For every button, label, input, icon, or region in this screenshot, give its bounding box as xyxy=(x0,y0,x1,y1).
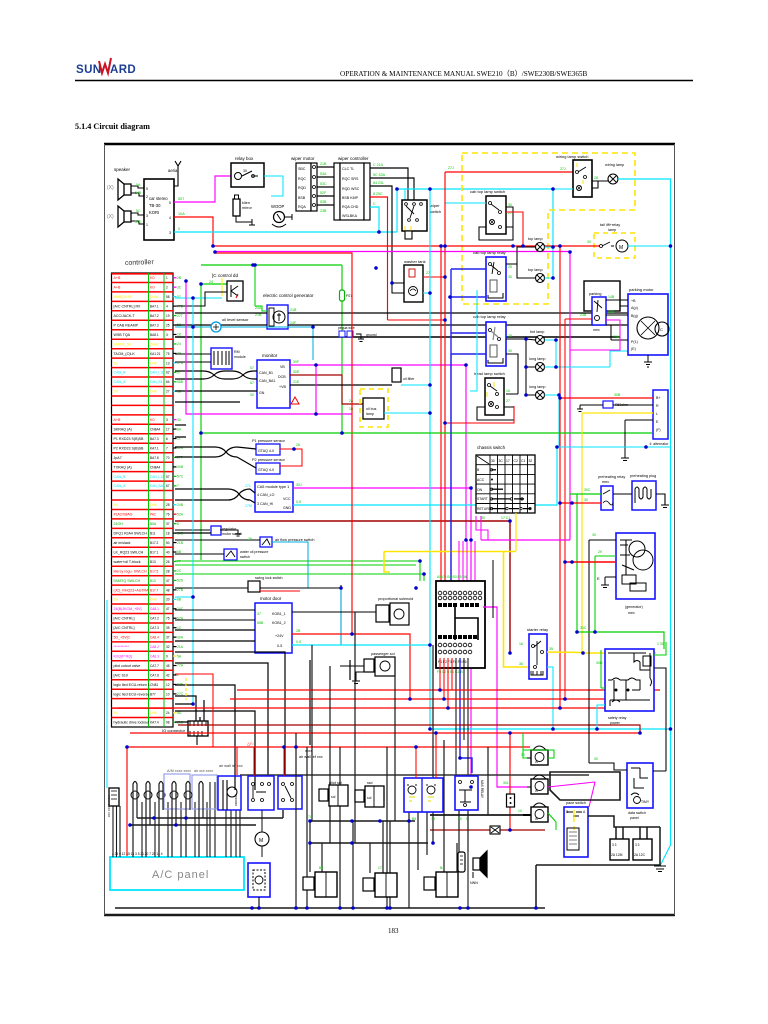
svg-text:A+B: A+B xyxy=(114,286,121,290)
svg-text:27M: 27M xyxy=(245,504,252,508)
node green net C-control xyxy=(201,265,342,560)
wire green preheat xyxy=(570,494,601,632)
svg-text:[A/C CNTRL]: [A/C CNTRL] xyxy=(114,626,135,630)
svg-text:ARD: ARD xyxy=(110,64,136,76)
parking motor M1 xyxy=(628,287,669,355)
svg-text:30: 30 xyxy=(481,516,485,520)
wire fuse bottom blue drop xyxy=(460,658,472,773)
wire cyan riser x477 xyxy=(470,290,477,391)
svg-text:30B: 30B xyxy=(177,465,184,469)
wire black bus y865 xyxy=(536,865,660,908)
pace switch S5 xyxy=(564,801,588,857)
wire cyan to C box xyxy=(175,297,222,299)
svg-text:air in/slack: air in/slack xyxy=(114,541,131,545)
svg-text:58: 58 xyxy=(166,295,170,299)
gauge box 1 xyxy=(610,839,629,860)
wiper controller right wires xyxy=(370,168,408,203)
svg-text:CA8.3: CA8.3 xyxy=(150,655,159,659)
wire lamp cyan stubs xyxy=(545,247,554,278)
svg-text:30: 30 xyxy=(177,418,181,422)
svg-text:KO: KO xyxy=(150,418,155,422)
wire washer cyan stub xyxy=(423,292,430,294)
svg-text:21A: 21A xyxy=(177,645,184,649)
svg-text:2A 12M: 2A 12M xyxy=(611,853,623,857)
svg-text:CA7.8: CA7.8 xyxy=(150,673,159,677)
wire red y747 xyxy=(127,746,530,748)
wire cyan into switch xyxy=(553,188,573,190)
wiper controller pin labels xyxy=(373,163,386,206)
svg-text:BA7.1: BA7.1 xyxy=(150,305,159,309)
svg-text:7: 7 xyxy=(166,446,168,450)
svg-text:F07: F07 xyxy=(346,294,352,298)
wire black alternator R xyxy=(577,405,653,412)
svg-text:18: 18 xyxy=(166,532,170,536)
svg-text:motor door: motor door xyxy=(260,596,282,601)
wire motor door red out xyxy=(292,634,410,699)
monitor U5 xyxy=(257,360,290,408)
wire wiring lamp cyan xyxy=(618,179,671,866)
svg-text:57: 57 xyxy=(250,366,254,370)
wire cab switch loop black xyxy=(479,207,513,240)
wire black to switch and on xyxy=(175,585,341,645)
oil level sensor xyxy=(211,317,249,332)
svg-text:air wall lef xxx: air wall lef xxx xyxy=(219,764,243,768)
head lamp 2 xyxy=(529,357,545,372)
wire stereo pin5 magenta xyxy=(174,176,231,202)
svg-text:2: 2 xyxy=(146,195,148,199)
wire green rows to fuse xyxy=(175,561,420,581)
green fuse on riser xyxy=(340,290,345,301)
AC relay box 1 xyxy=(248,776,274,810)
svg-text:controller: controller xyxy=(125,259,155,267)
svg-text:CAN_L12: CAN_L12 xyxy=(150,475,164,479)
svg-text:5: 5 xyxy=(466,817,468,821)
svg-text:logic tied ECU-reverse: logic tied ECU-reverse xyxy=(114,692,150,696)
svg-text:28B: 28B xyxy=(608,310,615,314)
wire head lamp cyan stubs xyxy=(545,340,560,395)
wire red to alternator xyxy=(560,397,653,399)
wire fuse bottom red drops xyxy=(440,658,452,708)
wire washer red out xyxy=(423,276,445,278)
svg-text:DFQ1 RJA4 SWLCH: DFQ1 RJA4 SWLCH xyxy=(114,532,148,536)
svg-text:30C: 30C xyxy=(584,488,591,492)
svg-text:35: 35 xyxy=(166,626,170,630)
svg-text:3: 3 xyxy=(166,418,168,422)
svg-text:54B: 54B xyxy=(135,191,142,195)
wire cyan tap wiper switch xyxy=(404,189,406,200)
svg-text:1: 1 xyxy=(166,276,168,280)
svg-text:24B: 24B xyxy=(177,503,184,507)
wire tail lamp cyan xyxy=(628,245,671,247)
svg-text:C1: C1 xyxy=(521,459,525,463)
svg-text:P2 RXD23 S(B)SB: P2 RXD23 S(B)SB xyxy=(114,446,145,450)
svg-text:52F: 52F xyxy=(320,191,327,195)
svg-text:CHA2: CHA2 xyxy=(150,342,159,346)
head lamp 1 xyxy=(530,330,545,345)
svg-text:28: 28 xyxy=(594,176,598,180)
wire cyan riser x341 xyxy=(340,588,342,645)
svg-text:A+B: A+B xyxy=(114,418,121,422)
dashed region tail lift relay lamp xyxy=(594,223,635,258)
wire green y433 long xyxy=(201,432,652,434)
svg-text:A5 C2 B4 B3 B5 B6: A5 C2 B4 B3 B5 B6 xyxy=(437,575,467,579)
small sensor block xyxy=(392,368,415,382)
washer pump box xyxy=(404,778,443,812)
svg-text:[A/C CNTRL] RX: [A/C CNTRL] RX xyxy=(114,305,142,309)
svg-text:36: 36 xyxy=(519,662,523,666)
svg-text:long lamp: long lamp xyxy=(529,357,545,361)
wire red bundle riser x445 xyxy=(444,172,446,581)
svg-text:26: 26 xyxy=(166,560,170,564)
svg-text:5V: 5V xyxy=(114,711,119,715)
svg-text:26: 26 xyxy=(248,537,252,541)
svg-text:CA8.1: CA8.1 xyxy=(150,607,159,611)
svg-text:CH8: CH8 xyxy=(150,361,157,365)
pilot sol pair xyxy=(319,781,348,806)
svg-text:ground: ground xyxy=(366,333,377,337)
svg-text:[C control dd: [C control dd xyxy=(212,273,238,278)
header rule xyxy=(75,80,693,82)
svg-text:TXRAQ (A): TXRAQ (A) xyxy=(114,465,132,469)
wire yellow starter out xyxy=(547,652,656,653)
wire red y172 lamp feed xyxy=(445,171,573,173)
svg-text:98: 98 xyxy=(166,721,170,725)
ground parking xyxy=(644,355,652,367)
svg-text:swing lock switch: swing lock switch xyxy=(255,576,283,580)
svg-text:3C: 3C xyxy=(499,459,504,463)
wire cyan low flow xyxy=(175,539,260,541)
svg-text:5: 5 xyxy=(169,201,171,205)
svg-text:25: 25 xyxy=(166,323,170,327)
wire sensor cyan tap xyxy=(401,384,430,386)
svg-text:cab top lamp relay: cab top lamp relay xyxy=(473,314,506,319)
svg-text:30: 30 xyxy=(592,533,596,537)
svg-text:E: E xyxy=(597,576,600,581)
engine starter block M2 xyxy=(616,533,655,615)
svg-text:2B: 2B xyxy=(177,276,182,280)
svg-text:10A: 10A xyxy=(178,212,185,216)
wire magenta lamp2 out xyxy=(548,782,595,787)
svg-text:37: 37 xyxy=(257,612,261,616)
svg-text:24F: 24F xyxy=(290,321,297,325)
svg-text:67: 67 xyxy=(250,381,254,385)
parking relay K4 xyxy=(589,292,606,332)
svg-text:17: 17 xyxy=(166,428,170,432)
svg-text:17 C1: 17 C1 xyxy=(501,516,510,520)
svg-text:37: 37 xyxy=(166,636,170,640)
svg-text:5V: 5V xyxy=(114,598,119,602)
svg-text:wiring lamp switch: wiring lamp switch xyxy=(556,154,588,159)
svg-text:5A: 5A xyxy=(136,183,141,187)
svg-text:CAN_B1: CAN_B1 xyxy=(259,371,273,375)
svg-text:26: 26 xyxy=(296,443,300,447)
svg-text:START: START xyxy=(477,497,488,501)
svg-text:7B: 7B xyxy=(431,817,436,821)
wire table to generator left xyxy=(175,313,267,325)
svg-text:25: 25 xyxy=(508,334,512,338)
svg-text:MAX RELAY: MAX RELAY xyxy=(480,780,484,799)
svg-text:17: 17 xyxy=(378,866,382,870)
svg-text:BA7.8: BA7.8 xyxy=(150,456,159,460)
fuse box FB1 xyxy=(436,581,485,668)
wire black pace out xyxy=(588,816,660,866)
svg-text:1K: 1K xyxy=(177,333,182,337)
wire magenta long y414 xyxy=(186,281,352,414)
svg-text:R: R xyxy=(656,404,659,408)
svg-text:(F): (F) xyxy=(656,428,661,432)
svg-text:oil bus: oil bus xyxy=(366,407,377,411)
svg-text:parking: parking xyxy=(589,292,601,296)
svg-text:27: 27 xyxy=(426,271,430,275)
svg-text:TB-30: TB-30 xyxy=(149,203,161,208)
svg-text:sol: sol xyxy=(367,796,372,800)
fuse on y830 xyxy=(490,826,500,834)
wire red drops to AC relays xyxy=(237,747,296,776)
svg-text:2C: 2C xyxy=(177,569,182,573)
logo SUNWARD xyxy=(76,58,136,76)
svg-text:CN8A4: CN8A4 xyxy=(150,465,161,469)
svg-text:40: 40 xyxy=(166,550,170,554)
svg-text:47: 47 xyxy=(166,607,170,611)
wire motor door cyan out xyxy=(292,644,430,646)
pressure sensor P2 xyxy=(252,458,286,474)
wire cyan left edge xyxy=(106,600,108,788)
svg-text:67: 67 xyxy=(166,484,170,488)
svg-text:10: 10 xyxy=(166,692,170,696)
solenoid pair 17 xyxy=(363,873,397,897)
regulator switch xyxy=(175,526,242,536)
svg-text:air out xxxx: air out xxxx xyxy=(194,769,213,773)
svg-text:mec: mec xyxy=(628,611,635,615)
svg-text:4 CAN_LO: 4 CAN_LO xyxy=(257,493,275,497)
wire red riser right xyxy=(559,246,561,708)
gauge box 2 xyxy=(633,839,652,860)
ground bottom right xyxy=(654,866,666,872)
svg-text:24: 24 xyxy=(166,711,170,715)
AC relay box 2 xyxy=(278,776,302,809)
wire red drops washer xyxy=(416,733,436,778)
wiring lamp switch S4 xyxy=(556,154,592,197)
svg-text:Mercy regu- SWLCH: Mercy regu- SWLCH xyxy=(114,569,148,573)
svg-text:VB: VB xyxy=(280,365,285,369)
wire cyan riser to lamp bus xyxy=(397,189,553,278)
svg-text:CAN_B: CAN_B xyxy=(114,371,127,375)
svg-text:tint lamp: tint lamp xyxy=(530,330,544,334)
wire red cab switch xyxy=(506,212,523,246)
svg-text:30C: 30C xyxy=(580,626,587,630)
svg-text:23B: 23B xyxy=(320,209,327,213)
pegua wire connector xyxy=(338,326,377,342)
svg-text:CH8: CH8 xyxy=(150,598,157,602)
svg-text:WSB TQA: WSB TQA xyxy=(114,333,131,337)
svg-text:52A: 52A xyxy=(177,512,184,516)
wire cyan riser table xyxy=(192,298,194,704)
svg-text:preheating plug: preheating plug xyxy=(630,474,656,478)
svg-text:21B: 21B xyxy=(290,308,297,312)
wire black y775 long left xyxy=(240,774,589,776)
svg-text:RQD: RQD xyxy=(298,186,306,190)
solenoid pair B4 xyxy=(424,872,458,897)
svg-text:30: 30 xyxy=(508,203,512,207)
wire red y246 main xyxy=(213,245,600,247)
svg-text:8 25C: 8 25C xyxy=(373,192,383,196)
svg-text:24(B)JKCM_+5V[: 24(B)JKCM_+5V[ xyxy=(114,607,142,611)
wire table to resistor module xyxy=(175,354,211,362)
wires parking motor left xyxy=(606,281,628,340)
svg-text:C2: C2 xyxy=(514,459,518,463)
head lamp switch S3 xyxy=(474,371,510,415)
wire dark red bus y521 xyxy=(175,520,510,522)
safety relay K6 xyxy=(605,649,654,725)
svg-text:5C 53A: 5C 53A xyxy=(373,173,386,177)
svg-text:2A 12C: 2A 12C xyxy=(634,853,646,857)
svg-text:hydraulic drive lockout: hydraulic drive lockout xyxy=(114,721,150,725)
diagram outer frame xyxy=(104,144,675,915)
svg-text:wiper controller: wiper controller xyxy=(338,156,369,161)
svg-text:A/M xxxx xxxx: A/M xxxx xxxx xyxy=(167,769,191,773)
svg-text:KA1.21: KA1.21 xyxy=(150,352,161,356)
twisted pair to monitor xyxy=(175,371,257,391)
svg-text:GN: GN xyxy=(259,391,265,395)
svg-text:10: 10 xyxy=(518,809,522,813)
AC vertical wires xyxy=(113,782,240,857)
wire black buses AC xyxy=(130,810,283,825)
wire red step washer xyxy=(388,319,446,321)
svg-text:75: 75 xyxy=(166,352,170,356)
svg-text:29A: 29A xyxy=(613,335,620,339)
wire red parking tap xyxy=(565,319,592,699)
wire magenta chassis step xyxy=(476,516,488,540)
wire red wiper pin xyxy=(370,197,388,320)
wire magenta y540 wide xyxy=(481,539,570,541)
preheating plug R2 xyxy=(630,474,656,510)
svg-text:MHB(24-5V: MHB(24-5V xyxy=(114,295,133,299)
top lamp 2 xyxy=(528,268,545,283)
svg-text:P1 RXD23 S(B)SB: P1 RXD23 S(B)SB xyxy=(114,437,145,441)
motor door U7 xyxy=(255,596,292,653)
wire cyan safety bottom xyxy=(597,705,605,729)
svg-text:1 30: 1 30 xyxy=(657,642,664,646)
top lamp 1 xyxy=(528,237,545,252)
wire red horizontals bottom xyxy=(237,689,660,691)
svg-text:27T: 27T xyxy=(177,314,183,318)
svg-text:VCC: VCC xyxy=(283,497,291,501)
wire magenta tap xyxy=(175,596,193,598)
svg-text:5.1.4 Circuit diagram: 5.1.4 Circuit diagram xyxy=(75,122,150,131)
ground engine xyxy=(601,577,616,588)
wire dark red into chassis xyxy=(509,521,511,653)
wire preheat to plug xyxy=(613,494,669,508)
svg-text:3C: 3C xyxy=(177,285,182,289)
rad sol pair xyxy=(355,781,384,807)
svg-text:30D: 30D xyxy=(596,661,603,665)
svg-text:GTAQ 4-0: GTAQ 4-0 xyxy=(258,449,274,453)
svg-text:B4: B4 xyxy=(440,866,444,870)
svg-text:B+: B+ xyxy=(656,396,661,400)
speaker SP1 xyxy=(118,179,131,200)
svg-text:BA8.1: BA8.1 xyxy=(150,333,159,337)
svg-text:DCB: DCB xyxy=(278,375,286,379)
wire red y253 xyxy=(215,253,352,634)
wiper motor connector J2 xyxy=(291,156,317,211)
svg-text:CAN_BA1: CAN_BA1 xyxy=(259,379,275,383)
svg-text:8B: 8B xyxy=(177,598,182,602)
svg-text:B6: B6 xyxy=(319,866,323,870)
wire oil level cyan xyxy=(175,327,313,360)
wires wiper motor to controller xyxy=(317,167,334,205)
wire generator outputs long black xyxy=(288,313,660,325)
svg-text:A+B: A+B xyxy=(114,276,121,280)
svg-text:power: power xyxy=(610,721,621,725)
svg-text:DMATQ SWLCH: DMATQ SWLCH xyxy=(114,579,141,583)
svg-text:54D: 54D xyxy=(135,220,142,224)
svg-text:starter relay: starter relay xyxy=(527,627,548,632)
svg-text:[A/C CNTRL]: [A/C CNTRL] xyxy=(114,617,135,621)
svg-text:L: L xyxy=(656,412,658,416)
svg-text:+B: +B xyxy=(631,299,636,303)
svg-text:3 3: 3 3 xyxy=(635,843,640,847)
wire black fuse riser xyxy=(492,560,494,618)
pressure sensor P1 xyxy=(252,439,286,455)
svg-text:long lamp: long lamp xyxy=(529,385,545,389)
wire monitor +VB black xyxy=(290,384,392,386)
svg-text:C: C xyxy=(373,202,376,206)
svg-text:27: 27 xyxy=(506,399,510,403)
svg-text:57C: 57C xyxy=(177,475,184,479)
svg-text:75: 75 xyxy=(166,617,170,621)
svg-text:30: 30 xyxy=(491,459,495,463)
wire green engine xyxy=(595,556,616,632)
svg-text:B(g): B(g) xyxy=(631,314,638,318)
svg-text:TACM_(C)LK: TACM_(C)LK xyxy=(114,352,136,356)
svg-text:speaker: speaker xyxy=(114,167,131,172)
svg-text:car stereo: car stereo xyxy=(149,196,168,201)
svg-text:CLC TL: CLC TL xyxy=(342,167,354,171)
wire cyan main riser x430 xyxy=(430,189,671,729)
svg-text:CAN_B: CAN_B xyxy=(114,475,127,479)
wire red swing lock out xyxy=(260,590,300,592)
svg-text:[A/C S10: [A/C S10 xyxy=(114,673,128,677)
svg-text:21B: 21B xyxy=(255,313,262,317)
svg-text:LK_RQ23 SWLCH: LK_RQ23 SWLCH xyxy=(114,550,144,554)
wire dark red y830 xyxy=(430,829,545,831)
svg-text:chassis switch: chassis switch xyxy=(477,445,506,450)
svg-text:ACC: ACC xyxy=(477,478,485,482)
data switch panel frame xyxy=(550,772,620,800)
svg-text:water+oil T-block: water+oil T-block xyxy=(114,560,141,564)
svg-text:B13: B13 xyxy=(150,579,156,583)
svg-text:CH8: CH8 xyxy=(150,390,157,394)
svg-text:42: 42 xyxy=(166,673,170,677)
wire washer tank left pins xyxy=(392,283,404,293)
svg-text:CAN_B1: CAN_B1 xyxy=(150,380,163,384)
svg-text:20: 20 xyxy=(166,598,170,602)
svg-text:25: 25 xyxy=(508,265,512,269)
svg-text:electric control generator: electric control generator xyxy=(263,293,314,298)
svg-text:KA7.1: KA7.1 xyxy=(150,446,159,450)
electric control generator U3 xyxy=(255,305,297,329)
svg-text:30: 30 xyxy=(584,498,588,502)
svg-text:52D: 52D xyxy=(177,579,184,583)
svg-text:xxxx xxxxx xxx: xxxx xxxxx xxx xyxy=(107,795,111,818)
svg-text:2: 2 xyxy=(166,286,168,290)
svg-text:5D: 5D xyxy=(177,711,182,715)
twisted pair to sensors xyxy=(175,447,256,468)
IO connector J4 xyxy=(162,721,208,745)
svg-text:CAN_BA2: CAN_BA2 xyxy=(150,484,165,488)
wiring lamp xyxy=(605,163,624,184)
interlock block xyxy=(299,749,323,759)
